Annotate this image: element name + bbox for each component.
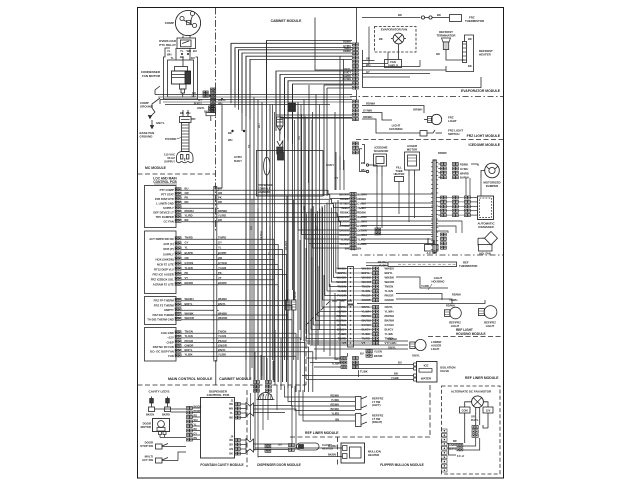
svg-text:RD: RD <box>229 439 233 442</box>
cavity led 1 <box>151 397 153 408</box>
module boundary vertical dash-dot cabinet <box>215 8 217 233</box>
svg-text:BU: BU <box>193 49 197 53</box>
svg-text:PTC RELAY: PTC RELAY <box>159 43 176 47</box>
evaporator fan box <box>375 27 417 53</box>
wire top defrost run <box>362 17 421 19</box>
wire C1 row 10 to liner spine <box>361 234 433 236</box>
cavity led 2 <box>167 397 169 408</box>
damper wires <box>438 163 440 165</box>
svg-text:GY/GN: GY/GN <box>385 323 394 327</box>
wire bus vertical 22 <box>326 88 328 196</box>
wire BR row <box>181 222 350 226</box>
svg-text:BK/WH: BK/WH <box>357 193 366 197</box>
svg-text:BN/YL: BN/YL <box>218 302 226 306</box>
svg-text:HOUSING MODULE: HOUSING MODULE <box>456 332 486 336</box>
svg-text:RD/BK: RD/BK <box>340 211 349 215</box>
svg-text:EMPTY: EMPTY <box>164 308 174 312</box>
wire bus vertical 5 <box>245 56 247 380</box>
svg-text:DAMPER: DAMPER <box>486 184 499 188</box>
svg-text:GY/BU: GY/BU <box>340 202 349 206</box>
liner connector spine <box>433 160 436 253</box>
svg-text:BK: BK <box>468 37 472 41</box>
wire bus vertical 4 <box>241 53 243 131</box>
wires PCB rows to C1 verticals <box>245 190 247 360</box>
svg-text:GY/WH: GY/WH <box>339 224 348 228</box>
svg-text:WH/OR: WH/OR <box>185 316 194 320</box>
wire nest 11 <box>288 81 352 141</box>
wire bus vertical 15 <box>287 81 289 360</box>
svg-text:SWITCH: SWITCH <box>448 132 459 136</box>
svg-text:BU: BU <box>278 444 282 447</box>
wire extra vertical 6 <box>319 105 321 331</box>
svg-text:HEATER: HEATER <box>394 172 405 176</box>
junction drop wire <box>214 105 222 189</box>
module boundary vertical ref liner right <box>429 385 431 437</box>
svg-text:YL/GN: YL/GN <box>218 334 226 338</box>
svg-text:YL/RD: YL/RD <box>332 412 340 415</box>
svg-text:PK: PK <box>185 196 189 200</box>
svg-text:P/CORD: P/CORD <box>165 137 176 141</box>
svg-text:WH: WH <box>186 111 190 115</box>
svg-text:WH/RD: WH/RD <box>357 215 366 219</box>
wire C1 row 8 to liner spine <box>361 225 433 227</box>
wire PK row <box>181 275 286 382</box>
svg-text:YL/RD: YL/RD <box>357 238 365 242</box>
wire nest 3 <box>239 50 353 110</box>
svg-text:OR/WH: OR/WH <box>363 115 372 119</box>
spine lower fanout <box>436 221 462 233</box>
power cord <box>180 117 192 123</box>
wire C1 row 6 to liner spine <box>361 216 433 218</box>
wire nest 10 <box>285 78 353 138</box>
svg-text:RD/WH: RD/WH <box>357 233 366 237</box>
wire bus vertical 23 <box>334 112 336 190</box>
wire VT row <box>181 280 274 382</box>
cabinet connector block C1 <box>350 193 353 196</box>
svg-text:LIGHT: LIGHT <box>431 347 440 351</box>
svg-text:BU: BU <box>315 226 319 230</box>
wire extra vertical 2 <box>274 112 276 330</box>
svg-text:SHIELD: SHIELD <box>388 64 398 68</box>
svg-text:DSP NC FD FAN: DSP NC FD FAN <box>153 345 174 349</box>
evaporator fan motor symbol <box>393 33 404 44</box>
svg-text:RD: RD <box>249 226 253 230</box>
control PCB box 1 <box>145 186 177 228</box>
svg-text:NCB FZ LITE: NCB FZ LITE <box>157 262 174 266</box>
wire nest 4 <box>242 53 352 113</box>
svg-text:BU: BU <box>229 444 233 447</box>
wire C1 row 1 to liner spine <box>361 193 433 195</box>
svg-text:+12V: +12V <box>167 336 174 340</box>
wire into C1 row 13 <box>312 112 350 248</box>
wire into C2 row 1 <box>338 200 348 269</box>
svg-text:FRZ ICE AUGER: FRZ ICE AUGER <box>153 272 174 276</box>
svg-text:YL/WH: YL/WH <box>385 310 394 314</box>
svg-text:WH: WH <box>229 408 233 411</box>
svg-text:A.C. AT: A.C. AT <box>426 251 435 255</box>
svg-text:TN/GN: TN/GN <box>385 285 394 289</box>
svg-text:WH/OR: WH/OR <box>218 316 227 320</box>
svg-text:F.C of: F.C of <box>457 454 464 458</box>
condenser fan motor housing <box>164 48 198 99</box>
svg-text:FRZ ICEBOX SOL: FRZ ICEBOX SOL <box>151 278 174 282</box>
svg-text:BN: BN <box>335 418 339 421</box>
frz light connector <box>353 100 356 103</box>
svg-text:LIGHT: LIGHT <box>448 119 457 123</box>
wires relay to fan motor <box>175 48 177 60</box>
wire extra vertical 4 <box>300 105 302 341</box>
wire into C2 row 3 <box>334 205 348 278</box>
svg-text:ICE: ICE <box>424 364 429 368</box>
svg-text:BR: BR <box>453 440 457 443</box>
wire bus vertical 12 <box>275 71 277 117</box>
svg-text:PK: PK <box>185 271 189 275</box>
svg-text:WH/RD: WH/RD <box>460 171 469 175</box>
svg-text:CONTROL PCB: CONTROL PCB <box>207 393 230 397</box>
wire BN/YL row <box>181 352 312 392</box>
svg-text:OR/YL: OR/YL <box>385 305 394 309</box>
board connector spine <box>214 187 217 362</box>
wire bus vertical 17 <box>297 102 299 360</box>
svg-text:FRZ DISP HTR: FRZ DISP HTR <box>155 197 174 201</box>
power rails <box>155 94 352 96</box>
svg-text:BU/WH: BU/WH <box>328 445 337 448</box>
wire into C2 row 7 <box>325 205 348 296</box>
svg-text:OR: OR <box>185 256 189 260</box>
svg-text:GY: GY <box>194 432 198 435</box>
control PCB box 4 <box>145 328 177 362</box>
fountain connector column <box>187 407 190 410</box>
svg-text:RD: RD <box>185 200 189 204</box>
svg-text:WH: WH <box>194 419 198 422</box>
svg-text:RD/WH: RD/WH <box>185 209 194 213</box>
svg-text:GY: GY <box>198 98 202 102</box>
alternate dc fan box <box>442 386 501 474</box>
svg-text:GN/OR: GN/OR <box>385 298 394 302</box>
svg-text:ACT SW: ACT SW <box>142 458 153 462</box>
wire ground riser <box>152 98 160 108</box>
evap housing loop <box>363 50 482 88</box>
svg-text:HEATER: HEATER <box>368 453 379 457</box>
svg-text:GN/YL: GN/YL <box>197 106 205 110</box>
module boundary ref liner bottom <box>290 436 430 438</box>
control PCB box 2 pin header <box>175 237 178 240</box>
svg-text:WATER: WATER <box>421 377 432 381</box>
svg-text:12V: 12V <box>486 409 491 413</box>
svg-text:YL: YL <box>185 246 189 250</box>
svg-text:PK/GR: PK/GR <box>385 294 394 298</box>
svg-text:PK/GR: PK/GR <box>218 339 227 343</box>
junction connector tail <box>209 106 211 109</box>
extra bottom verticals <box>250 393 252 440</box>
aux connector <box>441 233 444 236</box>
wire OR row <box>181 195 350 199</box>
svg-text:GY/GN: GY/GN <box>185 261 194 265</box>
module boundary vertical dispenser/flipper <box>337 437 339 467</box>
svg-text:YL: YL <box>230 412 234 415</box>
dc fan symbol <box>472 396 484 408</box>
ref frz lt sw left wires <box>285 386 356 397</box>
svg-text:WH: WH <box>257 123 261 128</box>
mullion heater wires <box>255 447 342 449</box>
svg-text:BK/WH: BK/WH <box>259 231 263 240</box>
svg-text:BU/PD: BU/PD <box>185 251 193 255</box>
svg-text:DR/RD: DR/RD <box>438 151 447 155</box>
dc fan connector <box>472 426 475 429</box>
svg-text:SUPPLY: SUPPLY <box>163 206 174 210</box>
ref light bulb 2 <box>484 306 497 319</box>
wire extra vertical 5 <box>311 120 313 345</box>
svg-text:YL: YL <box>194 423 198 426</box>
wire into C2 row 5 <box>329 200 347 287</box>
icedome connector strip <box>353 142 356 145</box>
svg-text:GN/YL: GN/YL <box>412 354 420 358</box>
bold feeder line <box>280 117 352 119</box>
svg-text:WH/RD: WH/RD <box>339 215 348 219</box>
svg-text:RD/WH: RD/WH <box>388 337 397 341</box>
wire bus vertical 6 <box>249 59 251 380</box>
wire bus vertical 1 <box>230 43 232 94</box>
svg-text:MAIN CONTROL MODULE: MAIN CONTROL MODULE <box>168 377 213 381</box>
automatic icemaker box <box>478 196 494 220</box>
module boundary ref light housing <box>428 336 504 338</box>
svg-text:BK/GN: BK/GN <box>146 414 154 417</box>
door motor <box>153 419 170 432</box>
wire TN/RD row <box>181 239 274 382</box>
svg-text:RD/WH: RD/WH <box>385 314 394 318</box>
wire bus vertical 14 <box>284 78 286 360</box>
console housing box <box>257 151 324 197</box>
wire RD row <box>181 204 350 208</box>
svg-text:COMP: COMP <box>165 21 174 25</box>
svg-text:BU/WH: BU/WH <box>460 176 469 180</box>
svg-text:LIGHT: LIGHT <box>486 324 495 328</box>
wire into C3 row 3 <box>318 211 348 316</box>
wire YL row <box>181 249 282 382</box>
wire RD/WH row <box>181 213 350 217</box>
wire bus vertical 10 <box>266 41 268 381</box>
compressor COMP <box>175 10 200 35</box>
module boundary evaporator <box>350 96 504 98</box>
svg-text:BK/WH: BK/WH <box>339 193 348 197</box>
wire BN/YL row <box>181 306 292 388</box>
svg-text:GY: GY <box>366 70 370 74</box>
wire into C2 row 2 <box>336 203 348 274</box>
svg-text:BK/WH: BK/WH <box>331 408 340 411</box>
wire PK row <box>181 199 350 203</box>
left strip wires <box>447 443 457 445</box>
module boundary ref liner left <box>306 301 352 385</box>
svg-text:VALVE: VALVE <box>440 369 449 373</box>
svg-text:GY/BU: GY/BU <box>234 156 242 159</box>
wire bus vertical 21 <box>323 85 325 196</box>
junction dots <box>209 95 211 97</box>
svg-text:TL/BK: TL/BK <box>360 370 368 374</box>
wire C1 row 11 to liner spine <box>361 238 433 240</box>
wire into C2 row 6 <box>327 203 348 292</box>
wire nest 7 <box>267 41 353 101</box>
svg-text:PK/GR: PK/GR <box>185 339 194 343</box>
wire YL/BK row <box>181 356 296 392</box>
wire into C3 row 8 <box>307 214 348 339</box>
svg-text:OR: OR <box>366 57 370 61</box>
wire into C1 row 12 <box>309 119 351 244</box>
wire bus vertical 2 <box>234 48 236 97</box>
module boundary MC module <box>138 173 216 175</box>
wires cord to junction <box>182 110 184 117</box>
svg-text:MC MODULE: MC MODULE <box>145 166 167 170</box>
wire extra vertical 1 <box>272 105 274 361</box>
icedome wires <box>362 145 365 164</box>
wire nest 8 <box>276 71 352 131</box>
icemaker connector grids <box>441 196 444 199</box>
cabinet loom verticals to dispenser <box>254 352 256 380</box>
svg-text:TN/GN: TN/GN <box>218 330 226 334</box>
svg-text:BU/YL: BU/YL <box>449 448 457 451</box>
svg-text:SOLENOID: SOLENOID <box>374 149 389 153</box>
svg-text:GN/OR: GN/OR <box>185 343 194 347</box>
svg-text:OR: OR <box>297 136 301 140</box>
frz light switch <box>420 131 427 137</box>
svg-text:REF LINER MODULE: REF LINER MODULE <box>465 376 499 380</box>
bottom long wires <box>215 400 217 402</box>
inline connector pair lower <box>286 300 291 310</box>
svg-text:ALTERNATE DC FAN MOTOR: ALTERNATE DC FAN MOTOR <box>451 390 492 394</box>
control PCB box 4 pin header <box>175 331 178 334</box>
svg-text:HOUSING: HOUSING <box>431 280 444 284</box>
wire YL/GN row <box>181 338 300 392</box>
wire YL/GN row <box>181 270 282 382</box>
svg-text:GY/WH: GY/WH <box>363 109 372 113</box>
evap connector strip <box>353 43 356 46</box>
left liner strip <box>442 429 447 432</box>
wire bus vertical 8 <box>257 100 259 381</box>
svg-text:GN/RD: GN/RD <box>449 444 457 447</box>
svg-text:BK: BK <box>229 417 233 420</box>
wire OR row <box>181 260 274 383</box>
svg-text:GN/OR: GN/OR <box>218 343 227 347</box>
ref thermistor <box>388 262 457 267</box>
svg-text:FOUNTAIN CAVITY MODULE: FOUNTAIN CAVITY MODULE <box>200 463 243 467</box>
svg-text:GY/GN: GY/GN <box>218 261 227 265</box>
svg-text:BN: BN <box>394 372 398 376</box>
speaker 2 wires right <box>254 443 289 445</box>
wire bus vertical 13 <box>279 74 281 117</box>
ref frz lt sw left symbol <box>356 397 362 410</box>
svg-text:RD/WH: RD/WH <box>331 403 340 406</box>
control PCB box 2 <box>145 231 177 294</box>
svg-text:BU: BU <box>185 187 189 191</box>
cavity heater connector <box>289 444 292 447</box>
svg-text:WH/BK: WH/BK <box>185 311 194 315</box>
svg-text:HOL FAN: HOL FAN <box>479 252 490 256</box>
svg-text:YL/GN: YL/GN <box>385 289 394 293</box>
svg-text:BR: BR <box>185 218 189 222</box>
wire C1 row 4 to liner spine <box>361 207 433 209</box>
cabinet riser at connector <box>356 8 358 43</box>
icedome lower connectors <box>375 228 378 231</box>
svg-text:TN/RD: TN/RD <box>218 236 226 240</box>
inline splice 3 <box>264 157 270 175</box>
control PCB box 3 pin header <box>175 298 178 301</box>
svg-text:BU/PD: BU/PD <box>218 251 226 255</box>
damper grid risers <box>465 178 467 196</box>
svg-text:BK/RD: BK/RD <box>185 281 194 285</box>
svg-text:YL: YL <box>180 49 184 53</box>
svg-text:WH/BU: WH/BU <box>185 297 194 301</box>
evap wires from connector <box>362 60 375 62</box>
wire bus vertical 3 <box>238 50 240 100</box>
svg-text:FAN: FAN <box>168 354 174 358</box>
speaker1 wires right <box>254 406 293 444</box>
svg-text:THERMISTOR: THERMISTOR <box>465 19 485 23</box>
svg-text:YL/GN: YL/GN <box>218 266 226 270</box>
condenser motor terminal <box>180 84 187 89</box>
svg-text:GN: GN <box>229 448 233 451</box>
wire comp to relay <box>182 36 184 39</box>
svg-text:BK: BK <box>247 144 251 148</box>
svg-text:YL/BK: YL/BK <box>218 353 226 357</box>
wire into C3 row 2 <box>320 209 348 312</box>
svg-text:FRZ LIGHT MODULE: FRZ LIGHT MODULE <box>467 134 501 138</box>
defrost bimetal fuse <box>421 16 424 19</box>
wire nest 6 <box>250 59 352 119</box>
svg-text:BK: BK <box>228 131 232 135</box>
wire WH/BU row <box>181 301 288 388</box>
svg-text:WH/BK: WH/BK <box>385 276 394 280</box>
svg-text:(LEFT): (LEFT) <box>372 403 381 407</box>
wire bus vertical 25 <box>343 59 345 170</box>
wire nest 2 <box>235 48 352 108</box>
svg-text:PTT COMP: PTT COMP <box>160 188 174 192</box>
wire C1 row 3 to liner spine <box>361 202 433 204</box>
svg-text:EVAPORATOR MODULE: EVAPORATOR MODULE <box>461 89 501 93</box>
svg-text:BU: BU <box>191 56 195 60</box>
wire into C3 row 7 <box>309 211 348 334</box>
wire C1 row 7 to liner spine <box>361 220 433 222</box>
wire BU row <box>181 190 350 194</box>
svg-text:GROUND: GROUND <box>140 135 153 139</box>
svg-text:PTT STAT: PTT STAT <box>161 193 174 197</box>
svg-text:GROUND: GROUND <box>140 105 153 109</box>
svg-text:SUPPLY: SUPPLY <box>163 252 174 256</box>
wire PK/GR row <box>181 343 304 393</box>
svg-text:BK: BK <box>437 13 441 17</box>
svg-text:BK/WH: BK/WH <box>385 319 394 323</box>
svg-text:WH/OR: WH/OR <box>385 280 395 284</box>
svg-text:FAN MOTOR: FAN MOTOR <box>142 74 161 78</box>
svg-text:BK: BK <box>398 13 402 17</box>
svg-text:CH5P: CH5P <box>166 340 174 344</box>
svg-text:DEF DEVICE LT: DEF DEVICE LT <box>153 211 174 215</box>
svg-text:TERMINATOR: TERMINATOR <box>436 34 456 38</box>
svg-text:VT: VT <box>185 276 189 280</box>
svg-text:GN/YL: GN/YL <box>156 121 165 125</box>
inline splice 2 <box>277 141 283 147</box>
ref light bulb 1 <box>450 307 462 319</box>
wires pcb J1 right to cabinet <box>250 382 254 384</box>
svg-text:BN: BN <box>357 247 361 251</box>
risers above C1 <box>335 152 337 190</box>
defrost feed loop <box>315 18 363 71</box>
svg-text:YL/RD: YL/RD <box>421 284 429 288</box>
svg-text:WH: WH <box>192 95 196 99</box>
svg-text:DISPENSER DOOR MODULE: DISPENSER DOOR MODULE <box>257 463 301 467</box>
svg-text:GY: GY <box>334 177 338 180</box>
svg-text:HEATER: HEATER <box>479 53 492 57</box>
svg-text:WH/RD: WH/RD <box>284 241 288 250</box>
svg-text:RD/WH: RD/WH <box>366 102 375 106</box>
